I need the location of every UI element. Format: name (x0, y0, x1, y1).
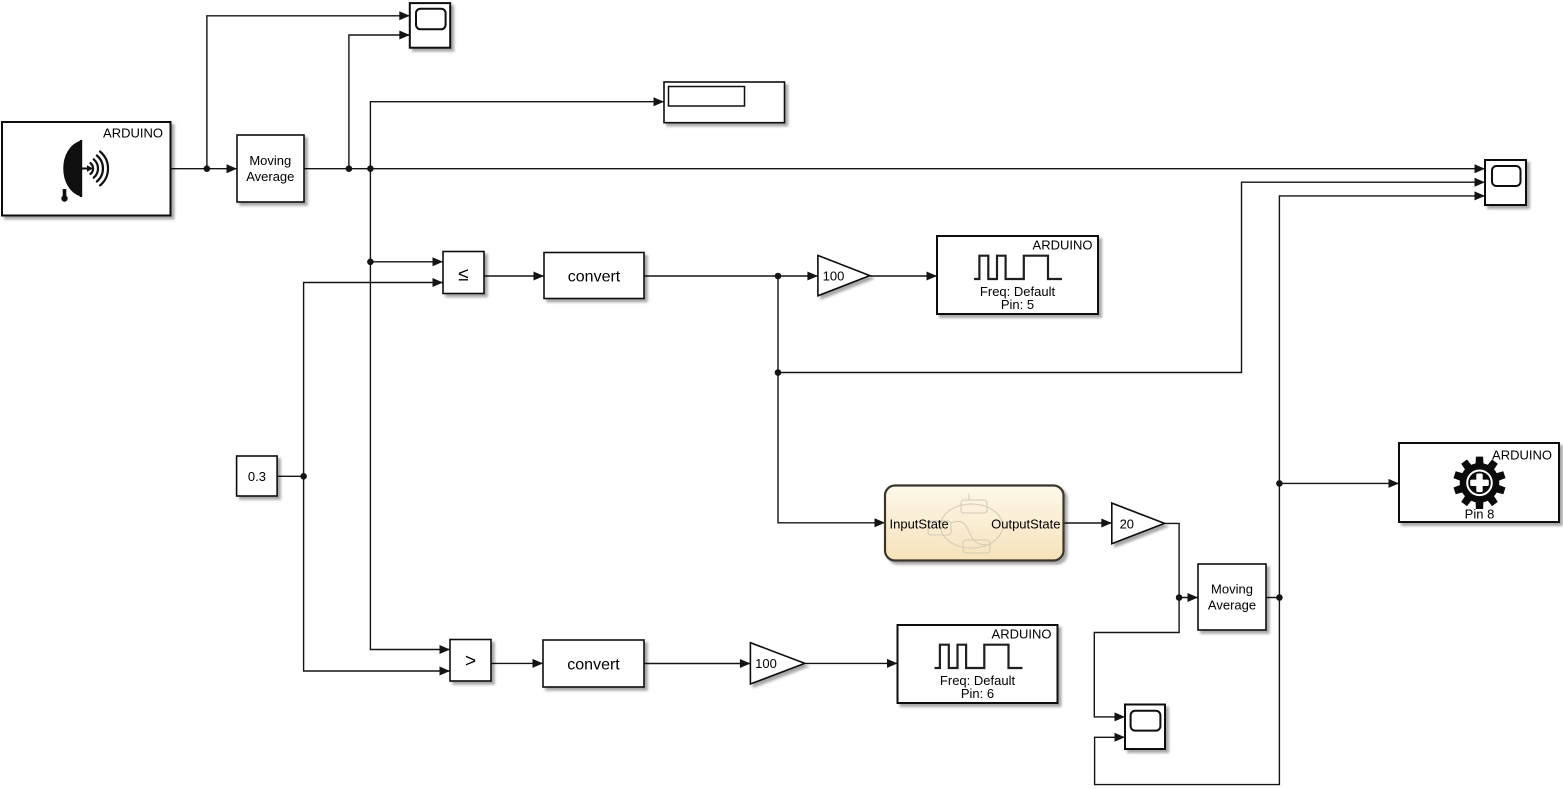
svg-text:ARDUINO: ARDUINO (103, 126, 163, 141)
svg-text:ARDUINO: ARDUINO (992, 627, 1052, 642)
svg-text:>: > (465, 651, 476, 672)
svg-text:Pin 8: Pin 8 (1465, 506, 1495, 521)
svg-text:Pin: 5: Pin: 5 (1001, 297, 1034, 312)
svg-text:Moving: Moving (1211, 582, 1253, 597)
svg-text:20: 20 (1120, 516, 1134, 531)
svg-text:Moving: Moving (249, 153, 291, 168)
svg-text:InputState: InputState (890, 517, 949, 532)
svg-text:ARDUINO: ARDUINO (1492, 448, 1552, 463)
svg-text:convert: convert (567, 656, 620, 673)
svg-text:≤: ≤ (458, 264, 468, 285)
svg-text:Average: Average (1208, 598, 1256, 613)
svg-text:100: 100 (823, 269, 845, 284)
svg-text:Average: Average (246, 169, 294, 184)
svg-text:Pin: 6: Pin: 6 (961, 686, 994, 701)
svg-text:100: 100 (755, 656, 777, 671)
svg-text:ARDUINO: ARDUINO (1033, 238, 1093, 253)
svg-text:convert: convert (568, 269, 621, 286)
svg-text:0.3: 0.3 (248, 469, 266, 484)
svg-text:OutputState: OutputState (991, 517, 1060, 532)
